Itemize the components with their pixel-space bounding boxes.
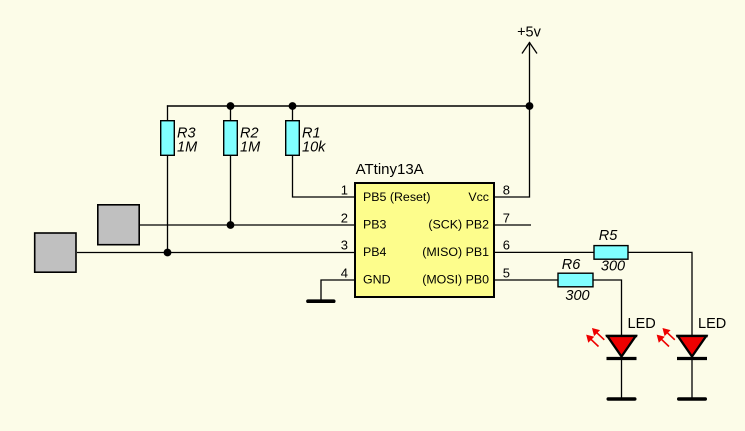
- node junction R2/PB3 net: [227, 221, 235, 229]
- resistor R2: [224, 121, 261, 156]
- svg-text:1: 1: [341, 182, 348, 197]
- svg-text:R5: R5: [599, 228, 618, 244]
- svg-text:7: 7: [503, 210, 510, 225]
- svg-text:8: 8: [503, 182, 510, 197]
- wire PB4 net: pin 3 to lower pad: [77, 252, 355, 254]
- wire pin 4 to ground: [321, 280, 355, 301]
- touch pad lower (PB4): [35, 233, 76, 272]
- LED D1 (left): [587, 316, 656, 399]
- resistor R3: [161, 121, 198, 156]
- node junction on rail at R1: [289, 102, 297, 110]
- svg-text:R6: R6: [562, 257, 581, 273]
- LED light arrow 1: [597, 332, 605, 339]
- svg-text:2: 2: [341, 210, 348, 225]
- svg-text:(SCK) PB2: (SCK) PB2: [428, 218, 489, 232]
- wire R5 to right LED anode: [628, 252, 692, 336]
- svg-text:LED: LED: [698, 316, 726, 332]
- svg-text:PB3: PB3: [363, 218, 387, 232]
- wire R3 top lead: [167, 105, 169, 121]
- wire R1 bottom lead to pin 1: [293, 155, 356, 197]
- resistor R6: [558, 257, 593, 304]
- ground: [308, 299, 334, 303]
- power symbol +5v arrow: [517, 25, 542, 54]
- svg-text:3: 3: [341, 238, 348, 253]
- svg-text:4: 4: [341, 265, 348, 280]
- LED D2 (right): [658, 316, 727, 399]
- svg-text:10k: 10k: [302, 140, 326, 156]
- svg-text:(MOSI) PB0: (MOSI) PB0: [422, 273, 489, 287]
- resistor R1: [286, 121, 326, 156]
- svg-text:Vcc: Vcc: [468, 190, 489, 204]
- wire R2 top lead: [230, 105, 232, 121]
- wire pin 6 to R5: [494, 251, 594, 253]
- touch pad upper (PB3): [98, 205, 139, 245]
- node junction on rail at +5v line: [526, 102, 534, 110]
- wire top rail: [167, 105, 530, 107]
- svg-text:6: 6: [503, 238, 510, 253]
- svg-text:PB4: PB4: [363, 245, 387, 259]
- wire pin 7 stub: [494, 224, 531, 226]
- svg-text:ATtiny13A: ATtiny13A: [356, 161, 424, 178]
- svg-text:1M: 1M: [177, 140, 198, 156]
- LED light arrow 2: [661, 339, 669, 346]
- wire R3 bottom lead to node on PB4 net: [167, 155, 169, 253]
- svg-text:LED: LED: [628, 316, 656, 332]
- op IC U1 ATtiny13A: [341, 161, 510, 297]
- svg-text:5: 5: [503, 265, 510, 280]
- LED light arrow 2: [591, 339, 599, 346]
- svg-text:+5v: +5v: [517, 25, 542, 41]
- wire R1 top lead: [292, 105, 294, 121]
- node junction on rail at R2: [227, 102, 235, 110]
- wire pin 5 to R6: [494, 279, 558, 281]
- wire R2 bottom lead to node on PB3 net: [230, 155, 232, 225]
- wire PB3 net: pin 2 to upper pad: [140, 224, 355, 226]
- wire +5v to pin 8: [494, 42, 530, 197]
- svg-text:300: 300: [565, 288, 589, 304]
- resistor R5: [594, 228, 628, 275]
- svg-text:(MISO) PB1: (MISO) PB1: [422, 245, 489, 259]
- wire R6 to left LED anode: [593, 280, 622, 336]
- LED light arrow 1: [667, 332, 675, 339]
- node junction R3/PB4 net: [164, 249, 172, 257]
- svg-text:300: 300: [601, 259, 625, 275]
- svg-text:1M: 1M: [240, 140, 261, 156]
- svg-text:GND: GND: [363, 273, 391, 287]
- svg-text:PB5 (Reset): PB5 (Reset): [363, 190, 430, 204]
